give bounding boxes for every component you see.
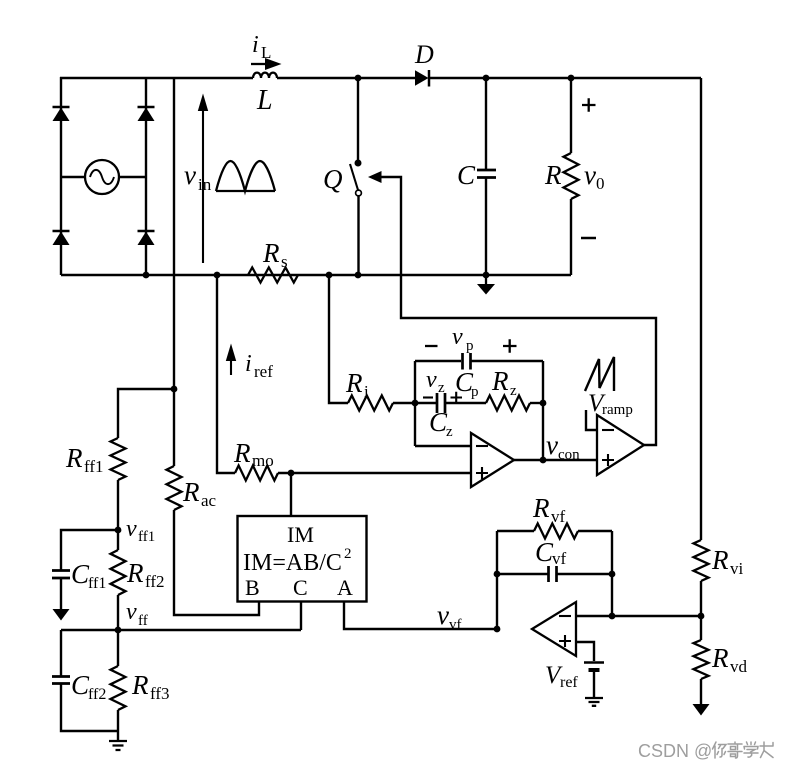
label pin B <box>245 575 260 600</box>
watermark CJK glyphs <box>713 742 774 758</box>
svg-text:vf: vf <box>551 507 566 526</box>
wire CEA inverting input <box>415 445 471 447</box>
svg-text:v: v <box>126 516 137 542</box>
node C_vf right <box>609 571 616 578</box>
svg-text:R: R <box>182 477 200 507</box>
capacitor C_z <box>437 393 445 413</box>
wire VEA feedback right edge <box>611 531 613 616</box>
node VEA inverting input <box>609 613 616 620</box>
svg-text:2: 2 <box>344 546 352 562</box>
capacitor C_ff2 <box>52 677 70 684</box>
svg-text:ff2: ff2 <box>88 686 106 703</box>
capacitor C_p <box>463 353 471 370</box>
wire R_ff1 branch <box>118 389 174 438</box>
label V_ramp <box>588 390 633 418</box>
svg-text:z: z <box>446 424 453 440</box>
diode bridge bottom-right <box>138 231 155 245</box>
svg-text:ff: ff <box>138 613 148 629</box>
node v_ff <box>115 627 122 634</box>
svg-text:p: p <box>466 338 474 354</box>
wire R_vf branch right <box>578 530 612 532</box>
resistor R_vd <box>694 640 709 679</box>
label v_z <box>426 367 445 396</box>
svg-text:v: v <box>184 160 196 190</box>
label R_ff2 <box>126 558 165 591</box>
node feedback right riser <box>540 400 547 407</box>
label pin C <box>293 575 308 600</box>
label R_s <box>262 238 288 271</box>
inductor L <box>253 73 277 78</box>
node divider R_vi/R_vd <box>698 613 705 620</box>
svg-text:R: R <box>262 238 280 268</box>
plus sign v0 <box>582 98 596 111</box>
node bottom rail - capacitor C <box>483 272 490 279</box>
node CEA output <box>540 457 547 464</box>
label R_i <box>345 368 369 401</box>
wire R_vd lower lead <box>700 679 702 704</box>
svg-text:s: s <box>281 252 288 271</box>
current arrow iL <box>251 58 282 70</box>
wire R_ff2 upper lead <box>117 530 119 550</box>
label C <box>457 160 476 190</box>
wire load R lower lead <box>570 199 572 275</box>
label v_vf <box>437 600 462 633</box>
wire AC source left lead <box>61 176 85 178</box>
ground under C_ff1 (arrow) <box>53 609 70 621</box>
svg-text:ff1: ff1 <box>138 529 155 545</box>
wire IM output stub <box>290 473 292 516</box>
switch Q blade and bottom contact <box>350 164 361 196</box>
resistor R (load) <box>564 153 579 199</box>
svg-text:z: z <box>438 380 445 396</box>
diode bridge top-right <box>138 107 155 121</box>
wire R_ac upper lead <box>173 389 175 466</box>
node top rail - R branch <box>568 75 575 82</box>
svg-text:ff3: ff3 <box>150 684 170 703</box>
wire IM pin C stub <box>300 601 302 630</box>
op-amp CEA (current error amplifier) <box>471 433 514 487</box>
node bottom rail - R_i branch <box>326 272 333 279</box>
wire R_vf branch left <box>497 530 534 532</box>
plus sign v_p <box>503 339 517 352</box>
label C_ff1 <box>71 559 106 592</box>
svg-text:v: v <box>584 160 596 190</box>
wire C_ff1 branch <box>61 530 118 570</box>
label R_z <box>491 366 517 399</box>
node C_vf left <box>494 571 501 578</box>
minus sign v_z <box>423 396 433 398</box>
wire i_ref branch <box>217 275 235 473</box>
svg-text:L: L <box>261 43 271 62</box>
minus sign v0 <box>581 237 596 240</box>
wire VEA inverting input line <box>576 615 701 617</box>
resistor R_ff2 <box>111 550 126 595</box>
svg-text:ff1: ff1 <box>84 457 104 476</box>
arrow v_in <box>198 94 208 264</box>
wire R_ff1 to v_ff1 <box>117 480 119 530</box>
svg-text:vi: vi <box>730 559 744 578</box>
svg-text:z: z <box>510 383 517 399</box>
svg-text:CSDN @: CSDN @ <box>638 741 712 761</box>
wire gate drive from comparator output <box>380 177 656 445</box>
ground under V_ref (earth) <box>585 698 603 706</box>
resistor R_i <box>348 396 393 411</box>
svg-text:vd: vd <box>730 657 748 676</box>
diode bridge bottom-left <box>53 231 70 245</box>
wire V_ref to ground <box>593 672 595 698</box>
wire switch Q lower lead <box>357 196 359 275</box>
svg-text:vf: vf <box>552 549 567 568</box>
svg-text:R: R <box>131 670 149 700</box>
label R_ff3 <box>131 670 170 703</box>
wire R_vi lower lead <box>700 581 702 616</box>
svg-text:v: v <box>126 599 137 625</box>
AC source (sine generator) <box>85 160 119 194</box>
svg-text:R: R <box>65 443 83 473</box>
wire C_p branch left <box>415 360 461 362</box>
wire switch Q upper lead <box>357 78 359 163</box>
wire R_ff3 upper lead <box>117 630 119 666</box>
wire R_vd upper lead <box>700 616 702 640</box>
svg-text:ref: ref <box>560 674 578 691</box>
node v_ff1 <box>115 527 122 534</box>
op-amp VEA (voltage error amplifier) <box>532 602 576 656</box>
wire feedback left riser <box>414 361 416 446</box>
label v_con <box>546 430 580 463</box>
svg-text:0: 0 <box>596 174 605 193</box>
svg-text:R: R <box>345 368 363 398</box>
label R_ac <box>182 477 217 510</box>
wire R_ff3 lower lead <box>117 710 119 741</box>
wire R_ff2 lower lead <box>117 595 119 630</box>
wire AC source right lead <box>119 176 146 178</box>
wire bottom rail (return rail) <box>61 274 571 276</box>
ground under R_vd (arrow) <box>693 704 710 716</box>
wire top rail right (diode D to corner, down right side) <box>429 77 701 79</box>
svg-text:R: R <box>233 438 251 468</box>
label C_vf <box>535 537 567 568</box>
svg-text:B: B <box>245 575 260 600</box>
resistor R_ff3 <box>111 666 126 710</box>
label v_p <box>452 324 474 354</box>
resistor R_ac <box>167 466 182 510</box>
svg-text:in: in <box>198 175 212 194</box>
battery V_ref <box>584 661 604 663</box>
op-amp comparator <box>597 415 644 475</box>
label R_ff1 <box>65 443 104 476</box>
svg-text:C: C <box>293 575 308 600</box>
V_ramp sawtooth symbol <box>585 357 614 391</box>
svg-text:IM: IM <box>287 522 314 547</box>
svg-text:R: R <box>711 545 729 575</box>
wire C_ff1 lower lead <box>60 578 62 609</box>
resistor R_ff1 <box>111 438 126 480</box>
capacitor C <box>477 170 496 178</box>
label i_ref <box>245 351 273 381</box>
svg-text:p: p <box>471 384 479 400</box>
label pin A <box>337 575 353 600</box>
wire V_ramp stub <box>586 410 597 430</box>
svg-text:ff2: ff2 <box>145 572 165 591</box>
svg-text:i: i <box>245 351 252 377</box>
wire C_vf branch right <box>557 573 612 575</box>
svg-text:R: R <box>544 160 562 190</box>
svg-text:v: v <box>546 430 558 460</box>
wire top rail left (bridge to inductor) <box>60 77 253 79</box>
wire capacitor C lower lead <box>485 178 487 275</box>
wire C_ff2 branch <box>60 630 62 676</box>
ground under R_ff3 (earth) <box>109 741 127 750</box>
svg-text:v: v <box>452 324 463 350</box>
wire C_p branch right <box>471 360 543 362</box>
svg-text:C: C <box>457 160 476 190</box>
wire R_i to input node <box>393 402 415 404</box>
wire bridge left leg <box>60 77 62 275</box>
resistor R_vi <box>694 540 709 581</box>
ground under capacitor C <box>477 275 495 295</box>
svg-text:i: i <box>364 382 369 401</box>
wire R_ac lower lead to IM pin B <box>174 510 259 615</box>
label C_ff2 <box>71 670 106 703</box>
label IM <box>287 522 314 547</box>
plus sign v_z <box>451 392 463 403</box>
wire feedback right riser <box>542 361 544 460</box>
svg-text:R: R <box>491 366 509 396</box>
wire C_ff2 lower lead and tie <box>61 684 118 731</box>
arrow i_ref <box>226 344 236 376</box>
label V_ref <box>545 662 578 691</box>
wire R_i branch <box>329 275 348 403</box>
wire bridge right leg <box>145 77 147 275</box>
wire IM pin A stub to VEA output <box>344 601 497 629</box>
wire top rail middle (inductor to diode D) <box>277 77 415 79</box>
node VEA output <box>494 626 501 633</box>
svg-text:R: R <box>126 558 144 588</box>
wire load R upper lead <box>570 78 572 153</box>
label v_in <box>184 160 212 194</box>
wire v_ff node line <box>61 629 301 631</box>
arrow gate drive into Q <box>368 171 382 183</box>
label R_vf <box>532 493 566 526</box>
label iL <box>252 32 271 62</box>
svg-text:ac: ac <box>201 491 217 510</box>
node feedforward branch <box>171 386 178 393</box>
label R_vi <box>711 545 744 578</box>
wire C_vf branch left <box>497 573 548 575</box>
svg-text:IM=AB/C: IM=AB/C <box>243 550 342 576</box>
svg-text:R: R <box>711 643 729 673</box>
svg-text:ref: ref <box>254 362 273 381</box>
svg-text:ramp: ramp <box>602 402 633 418</box>
resistor R_mo <box>235 466 278 481</box>
switch Q top contact <box>355 160 362 167</box>
label v_ff1 <box>126 516 155 545</box>
node R_mo / IM output <box>288 470 295 477</box>
resistor R_z <box>486 396 530 411</box>
diode D <box>415 70 429 87</box>
svg-text:A: A <box>337 575 353 600</box>
diode bridge top-left <box>53 107 70 121</box>
node top rail - C branch <box>483 75 490 82</box>
svg-text:Q: Q <box>323 164 343 194</box>
waveform rectified sine <box>216 161 275 191</box>
node CEA input network <box>412 400 419 407</box>
wire C_z branch left <box>415 402 436 404</box>
wire right side vertical <box>700 78 702 540</box>
capacitor C_ff1 <box>52 571 70 579</box>
wire VEA noninverting to V_ref <box>576 642 594 661</box>
svg-text:mo: mo <box>252 451 274 470</box>
label D <box>414 40 434 69</box>
label IM=AB/C2 <box>243 546 352 576</box>
label R_vd <box>711 643 748 676</box>
node bottom rail - i_ref branch <box>214 272 221 279</box>
svg-text:ff1: ff1 <box>88 575 106 592</box>
wire capacitor C upper lead <box>485 78 487 169</box>
node top rail - Q branch <box>355 75 362 82</box>
svg-text:L: L <box>256 85 273 116</box>
wire R_mo to CEA noninverting input <box>278 472 471 474</box>
svg-text:vf: vf <box>449 617 462 633</box>
wire sense vertical from top rail <box>173 78 175 389</box>
label v_ff <box>126 599 148 629</box>
capacitor C_vf <box>549 566 557 582</box>
label R <box>544 160 562 190</box>
resistor R_vf <box>534 524 578 539</box>
minus sign v_p <box>425 345 438 347</box>
svg-text:R: R <box>532 493 550 523</box>
svg-text:v: v <box>437 600 449 630</box>
multiplier block IM <box>238 516 367 602</box>
svg-text:i: i <box>252 32 259 58</box>
label Q <box>323 164 343 194</box>
wire CEA output to comparator <box>514 459 597 461</box>
node bottom rail - bridge right leg <box>143 272 150 279</box>
label C_p text <box>455 367 479 400</box>
label v0 <box>584 160 605 193</box>
svg-text:v: v <box>426 367 437 393</box>
label L <box>256 85 273 116</box>
svg-text:D: D <box>414 40 434 69</box>
wire C_z to R_z <box>445 402 486 404</box>
wire R_z to right riser <box>530 402 543 404</box>
label C_z <box>429 407 453 440</box>
label R_mo <box>233 438 274 470</box>
resistor R_s <box>248 268 298 283</box>
wire VEA feedback left edge <box>496 531 498 629</box>
node bottom rail - switch Q <box>355 272 362 279</box>
svg-text:con: con <box>558 447 580 463</box>
